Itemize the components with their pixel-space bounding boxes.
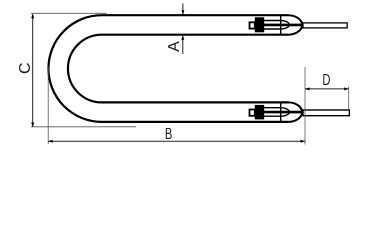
svg-text:B: B: [165, 124, 172, 143]
tube outer outline (U-shaped heating element, outer edge): [48, 15, 288, 122]
seal plug top (solid): [255, 17, 264, 32]
dim C dimension line: [32, 14, 34, 127]
dim C extension line bottom: [31, 126, 136, 128]
weld line bottom cap: [280, 102, 282, 122]
conductor lines top leg: [264, 20, 281, 22]
terminal tab top: [250, 22, 255, 28]
insulator arc bottom: [281, 108, 290, 117]
shared extension line B right / D left: [304, 67, 306, 145]
end cap bottom leg: [288, 102, 302, 122]
insulator arc top: [281, 21, 290, 30]
dim D extension line right: [348, 87, 350, 110]
terminal pin top: [303, 23, 347, 28]
dim C extension line top: [31, 12, 107, 14]
tube inner outline (U-shaped heating element, inner edge): [68, 35, 288, 103]
dim D dimension line: [305, 88, 349, 90]
terminal pin bottom: [303, 110, 349, 116]
pin core bar bottom leg: [264, 111, 303, 114]
weld line top cap: [280, 15, 282, 35]
end cap top leg: [288, 15, 302, 35]
dim A arrow line above tube: [182, 3, 184, 14]
seal plug bottom (solid): [255, 105, 264, 120]
svg-text:C: C: [17, 62, 34, 74]
svg-text:A: A: [166, 41, 183, 52]
dim B dimension line: [48, 140, 305, 142]
terminal tab bottom: [250, 110, 255, 116]
conductor lines bottom leg: [264, 107, 281, 109]
dim B extension line left: [47, 67, 49, 145]
pin core bar top leg: [264, 24, 303, 27]
dim A arrow line below tube: [182, 36, 184, 54]
svg-text:D: D: [322, 70, 330, 89]
